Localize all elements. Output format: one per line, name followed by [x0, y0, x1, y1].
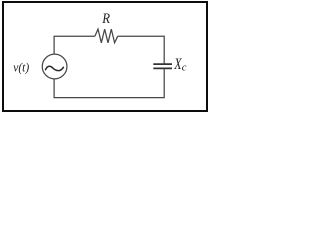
voltage source v(t): sine tilde [46, 66, 64, 70]
wire: resistor to top-right corner to capacitor [118, 36, 165, 63]
wire: source top to top-left corner to resistor [54, 36, 95, 54]
svg-text:c: c [182, 63, 187, 74]
resistor R [95, 29, 118, 43]
capacitor Xc: bottom plate [153, 67, 172, 69]
svg-text:R: R [101, 11, 110, 27]
wire: capacitor to bottom-right corner to bottom-left corner to source [54, 69, 164, 98]
voltage source v(t): circle [42, 54, 67, 79]
svg-text:v(t): v(t) [13, 60, 29, 75]
capacitor Xc: top plate [153, 63, 172, 65]
